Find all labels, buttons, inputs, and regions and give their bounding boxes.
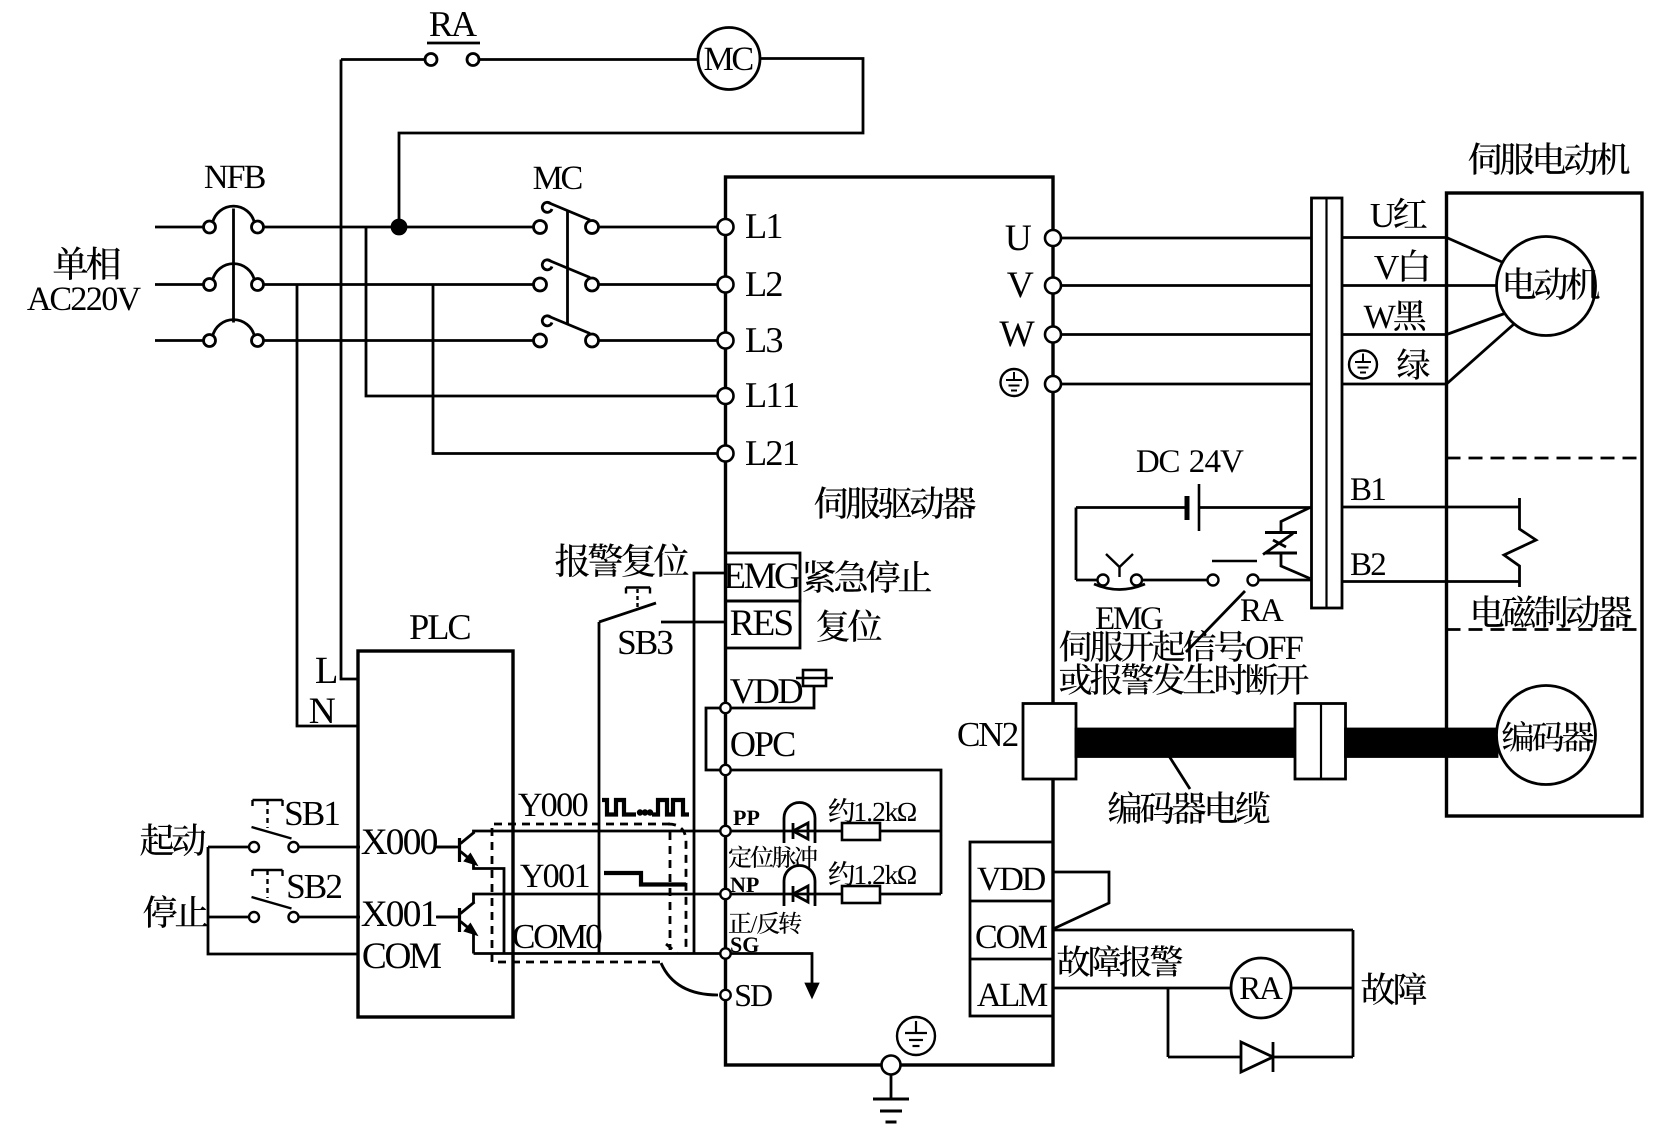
label 编码器电缆: [1108, 791, 1269, 824]
lead PE into motor: [1447, 324, 1515, 384]
protective earth symbol (driver): [897, 1017, 935, 1055]
terminal label U: [1006, 226, 1031, 251]
brake section divider: [1447, 628, 1643, 631]
wire: OPC to pulse pull-up rail: [731, 770, 941, 894]
terminal label L11: [746, 383, 798, 407]
label 报警复位: [555, 543, 688, 577]
terminal L11: [718, 388, 734, 404]
ground symbol: [890, 1075, 893, 1100]
resistor 1.2k (NP): [842, 886, 880, 903]
label 伺服电动机: [1469, 142, 1630, 175]
wire RA to connector: [1259, 579, 1312, 582]
junction dot on L1: [392, 220, 406, 234]
wire: RA to MC coil: [479, 58, 698, 61]
terminal V: [1045, 278, 1061, 294]
contactor coil MC: [698, 28, 760, 90]
terminal label X001: [362, 901, 437, 926]
wire: L21 control tap from L2: [433, 285, 718, 454]
wire: COM0 / SG row: [474, 952, 721, 955]
terminal label SD: [736, 985, 772, 1006]
waveform Y001 step: [604, 873, 686, 885]
label 紧急停止: [803, 560, 931, 593]
pushbutton SB1 (start): [249, 842, 259, 852]
terminal label PP: [733, 811, 759, 825]
pushbutton SB2 (stop): [249, 912, 259, 922]
motor section divider: [1447, 457, 1643, 460]
label DC 24V: [1137, 450, 1244, 472]
terminal VDD: [720, 703, 730, 713]
NFB mechanical link: [232, 209, 235, 323]
PLC box: [358, 651, 513, 1017]
wire: button common to PLC COM: [208, 847, 358, 954]
servo motor box: [1447, 193, 1643, 816]
terminal label N: [310, 699, 335, 724]
resistor 1.2k (PP): [842, 823, 880, 840]
wire ALM row: [1053, 987, 1231, 990]
label 编码器: [1502, 721, 1593, 752]
wire B2: [1342, 580, 1520, 583]
wire VDD-COM link: [1053, 872, 1109, 929]
wire: stop button row: [208, 916, 249, 919]
wire: RES to SB3: [661, 621, 726, 624]
terminal U: [1045, 230, 1061, 246]
terminal L21: [718, 446, 734, 462]
flyback diode: [1241, 1042, 1273, 1072]
wire: SB3 down to SG bus: [598, 622, 601, 954]
wire: Q1 collector PP row: [474, 831, 721, 833]
wire: MC to L3 terminal: [599, 339, 718, 342]
wire right vertical: [1352, 930, 1355, 1057]
terminal label COM (output): [976, 925, 1047, 948]
label 或报警发生时断开: [1060, 663, 1309, 695]
terminal label L3: [746, 328, 782, 352]
wire: NFB to MC pole 2: [264, 283, 534, 286]
relay coil RA (fault): [1231, 958, 1291, 1018]
wire: neutral lead down to PLC N: [297, 285, 358, 727]
terminal L2: [718, 277, 734, 293]
wire ALM to diode: [1167, 988, 1170, 1057]
wire NP resistor to rail: [880, 893, 941, 896]
label COM0: [513, 925, 601, 949]
MC mechanical link: [566, 211, 569, 324]
connector CN2: [1023, 704, 1076, 780]
wire NP row: [731, 893, 842, 896]
wire battery top: [1076, 506, 1186, 509]
lead W into motor: [1447, 313, 1507, 335]
label SB2: [289, 875, 342, 899]
terminal W: [1045, 327, 1061, 343]
label 故障报警: [1058, 945, 1183, 977]
terminal label X000: [362, 829, 437, 854]
label U红: [1371, 198, 1427, 229]
label Y001: [520, 864, 588, 887]
terminal L1: [718, 219, 734, 235]
terminal label L1: [746, 214, 781, 238]
label 伺服驱动器: [815, 486, 976, 519]
wire B1: [1342, 506, 1520, 509]
wire: L11 control tap from L1: [366, 227, 718, 396]
wire: MC coil loop to L1 junction: [399, 59, 863, 221]
wire: Q2 collector NP row: [474, 894, 721, 903]
wire W to motor: [1342, 333, 1447, 336]
waveform Y000 pulse train: [602, 800, 636, 815]
fuse at VDD: [731, 686, 815, 708]
terminal label ALM: [977, 984, 1047, 1007]
label NFB: [205, 166, 265, 188]
label B2: [1351, 553, 1385, 575]
motor M: [1497, 237, 1596, 336]
label V白: [1374, 249, 1428, 281]
encoder cable (driver side): [1076, 729, 1295, 757]
relay contact RA (start circuit): [425, 54, 437, 66]
label RA (brake circuit): [1241, 599, 1284, 621]
label 绿: [1397, 348, 1429, 379]
output terminal boxes VDD/COM/ALM: [970, 842, 1053, 1016]
label 电磁制动器: [1474, 595, 1632, 628]
wire V to connector: [1061, 284, 1312, 287]
terminal label SG: [731, 937, 759, 952]
wire: MC to L1 terminal: [599, 226, 718, 229]
terminal L3: [718, 333, 734, 349]
wire PP row: [731, 830, 842, 833]
wire U to connector: [1061, 237, 1312, 240]
label 电动机: [1506, 267, 1600, 300]
label SB1: [287, 802, 339, 826]
wire: VDD-OPC link: [706, 708, 721, 770]
wire V to motor: [1342, 284, 1497, 287]
terminal label V: [1007, 273, 1033, 298]
label MC (contactor): [534, 166, 582, 189]
label 起动: [140, 823, 205, 856]
label AC220V: [27, 287, 141, 310]
terminal box EMG: [726, 553, 801, 601]
label B1: [1351, 478, 1385, 500]
terminal label L21: [746, 441, 798, 465]
label 正/反转: [729, 912, 802, 934]
power connector (bulkhead): [1312, 198, 1343, 608]
label PLC: [410, 615, 470, 639]
terminal label L2: [746, 272, 782, 296]
brake coil: [1504, 498, 1536, 587]
label RA underline: [427, 42, 480, 45]
label 约1.2kΩ (NP): [829, 861, 916, 886]
wire: EMG to SG bus: [694, 573, 726, 954]
terminal label RES: [731, 610, 792, 635]
label MC (coil): [705, 47, 753, 70]
wire EMG to RA: [1142, 579, 1208, 582]
label Y000: [518, 793, 587, 816]
optocoupler LED (PP): [784, 803, 815, 844]
wire W to connector: [1061, 333, 1312, 336]
transistor Q2 (Y001 output): [458, 908, 461, 932]
wire: mains input N: [155, 283, 204, 286]
lead U into motor: [1447, 238, 1503, 263]
wire: NFB to MC pole 1: [264, 226, 534, 229]
emergency button EMG (brake): [1076, 579, 1098, 582]
terminal OPC: [720, 765, 730, 775]
label 复位: [817, 609, 881, 642]
wire: Q2 emitter to common: [472, 931, 475, 954]
terminal label EMG: [724, 563, 800, 588]
label EMG (brake circuit): [1096, 607, 1163, 629]
label SB3: [620, 631, 673, 655]
surge arrester (brake coil suppressor): [1281, 508, 1310, 533]
terminal label NP: [730, 878, 758, 892]
terminal PE: [1045, 376, 1061, 392]
terminal label VDD (output): [977, 868, 1045, 891]
label 伺服开起信号OFF: [1060, 630, 1303, 662]
terminal box RES: [726, 601, 801, 648]
servo driver box: [726, 177, 1054, 1065]
terminal SD: [720, 990, 730, 1000]
cable inline connector: [1295, 704, 1346, 780]
encoder: [1497, 686, 1596, 785]
leader: cable shield to SD: [661, 963, 718, 995]
label 约1.2kΩ (PP): [829, 798, 916, 823]
wire PE(green) to motor: [1342, 383, 1447, 386]
label RA (top relay contact): [430, 12, 477, 36]
terminal ground: [882, 1056, 901, 1075]
shielded cable (dashed): [492, 824, 670, 962]
terminal label COM: [363, 943, 441, 968]
label 停止: [143, 895, 208, 928]
battery DC 24V: [1198, 484, 1201, 531]
wire loop left: [1075, 508, 1078, 581]
wire COM row: [1053, 929, 1353, 932]
leader RA note: [1186, 591, 1245, 652]
pushbutton SB3 (alarm reset): [599, 603, 656, 622]
label CN2: [958, 723, 1017, 747]
terminal PP: [720, 826, 730, 836]
wire: mains input L: [155, 226, 204, 229]
waveform dots: [638, 811, 642, 815]
wire PE to connector: [1061, 383, 1312, 386]
relay contact RA (brake): [1208, 575, 1219, 586]
wire: RA left to down lead: [341, 58, 425, 61]
label 单相: [54, 246, 120, 280]
wire: phase lead down to PLC L: [341, 60, 358, 680]
terminal NP: [720, 889, 730, 899]
optocoupler LED (NP): [784, 865, 815, 906]
wire: mains input PE: [155, 339, 204, 342]
encoder cable (motor side): [1346, 729, 1498, 757]
label W黑: [1364, 300, 1426, 331]
signal arrow inside driver at SG: [731, 954, 812, 985]
label backgrounds: [360, 830, 436, 862]
leader: cable label: [1169, 756, 1190, 789]
wire: MC to L2 terminal: [599, 283, 718, 286]
label 定位脉冲: [729, 846, 817, 868]
circuit breaker NFB: [204, 221, 216, 233]
wire PP resistor to rail: [880, 830, 941, 833]
wire U to motor: [1342, 236, 1447, 239]
contactor MC main contacts: [534, 221, 547, 234]
terminal label OPC: [731, 732, 794, 756]
wire: start button row: [208, 846, 249, 849]
protective earth symbol (U V W): [1001, 369, 1028, 396]
label RA (fault relay coil): [1240, 977, 1283, 999]
terminal SG: [720, 948, 730, 958]
wire: NFB to MC pole 3: [264, 339, 534, 342]
terminal label W: [999, 322, 1034, 347]
transistor Q1 (Y000 output): [458, 838, 461, 862]
terminal label VDD: [730, 679, 802, 703]
label 故障: [1362, 972, 1427, 1005]
protective earth symbol (green wire): [1349, 351, 1377, 379]
wire: Q1 emitter to common: [474, 861, 505, 954]
terminal label L: [316, 658, 336, 683]
wire RA coil to right: [1291, 987, 1353, 990]
